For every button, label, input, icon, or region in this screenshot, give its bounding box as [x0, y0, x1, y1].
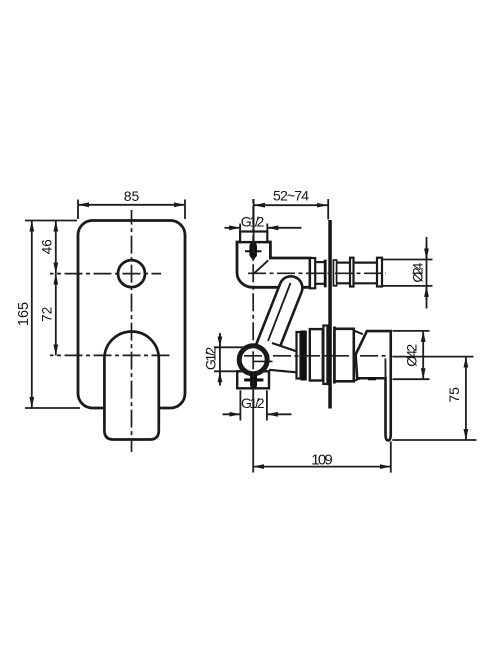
dim G1/2 left (circle) [214, 346, 245, 348]
dim 85 top [25, 200, 185, 409]
wall plate (side view) [328, 220, 332, 409]
centerlines [252, 199, 254, 391]
end flange E [377, 258, 382, 287]
svg-text:G1/2: G1/2 [241, 213, 265, 229]
circle horizontal centerline [50, 273, 161, 275]
rect below circle [237, 371, 269, 388]
svg-text:72: 72 [40, 307, 55, 322]
thread slot in rect [250, 373, 257, 389]
thread slot (black) in elbow [249, 243, 257, 258]
dim G1/2 bottom [239, 390, 241, 420]
svg-text:85: 85 [124, 188, 140, 204]
svg-text:109: 109 [311, 452, 333, 469]
handle skirt + lever blade [356, 331, 391, 440]
dim 72 [55, 274, 57, 356]
handle horizontal centerline [50, 354, 172, 356]
svg-text:Ø42: Ø42 [404, 344, 420, 367]
skirt bottom bump [368, 377, 376, 380]
G1/2 top port [240, 232, 267, 243]
flange before plate [323, 326, 327, 385]
neck cone fill (covers capsule lower end) [261, 342, 297, 373]
dim O24 [383, 259, 433, 261]
svg-text:46: 46 [40, 239, 55, 254]
plate (front escutcheon, rounded rect 85x165) [50, 210, 185, 452]
dim G1/2 top [239, 224, 241, 232]
dim 75 [392, 356, 473, 358]
cartridge housing [335, 329, 354, 382]
handle (front) [104, 332, 158, 440]
svg-text:52~74: 52~74 [273, 188, 309, 204]
body cap [297, 332, 301, 379]
svg-text:75: 75 [446, 387, 462, 403]
inlet circle (lower port) [239, 346, 267, 374]
diverter knob circle [118, 260, 145, 287]
pipe A-B [315, 261, 324, 263]
vertical centerline [131, 210, 133, 452]
svg-text:G1/2: G1/2 [241, 395, 265, 411]
svg-text:Ø24: Ø24 [410, 262, 426, 282]
ring after plate (body) [333, 327, 336, 384]
svg-text:G1/2: G1/2 [203, 346, 219, 370]
ridge bottom [354, 377, 363, 381]
pipe C-D [337, 262, 350, 264]
ring D [350, 258, 354, 287]
dim 46 [55, 221, 57, 274]
dim 165 left [25, 220, 77, 222]
neck lines circle to body [272, 343, 297, 351]
pipe D-E [354, 262, 378, 264]
elbow inner chamfer line [254, 260, 268, 273]
svg-text:165: 165 [16, 302, 32, 326]
top outlet pipe: ring A [310, 258, 315, 288]
ring C [333, 260, 336, 286]
body ring [310, 329, 323, 380]
diagonal pipe capsule [255, 276, 302, 360]
dim 109 [390, 442, 392, 473]
ring B dark [324, 260, 327, 288]
dim 52~74 [253, 199, 255, 241]
dim O42 [393, 330, 430, 332]
inlet elbow body [237, 242, 310, 287]
ridge top [354, 331, 363, 335]
